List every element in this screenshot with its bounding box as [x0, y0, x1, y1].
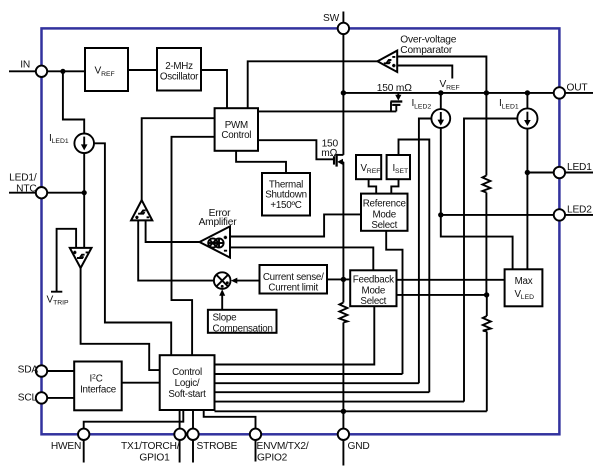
wire ILED2 top to OUT line [440, 93, 442, 109]
svg-text:Mode: Mode [372, 209, 396, 220]
pin SW [338, 12, 349, 35]
wire reference mode select left to error amp plus input [230, 214, 361, 236]
svg-text:Slope: Slope [213, 312, 238, 323]
svg-text:+150ºC: +150ºC [270, 200, 301, 211]
box ISET [387, 155, 410, 179]
box current sense / current limit [260, 265, 328, 294]
wire OUT line [343, 92, 553, 94]
pin IN [36, 66, 47, 77]
box VREF (bandgap) [85, 48, 128, 91]
wire LED2 line [441, 214, 554, 216]
wire LED1/NTC pin line [9, 192, 84, 194]
wire PWM comparator output to PWM control left [142, 118, 215, 200]
wire feedback mode select right to resistor junction [397, 294, 487, 296]
svg-text:150 mΩ: 150 mΩ [377, 83, 412, 94]
pin OUT [554, 87, 593, 98]
transistor 150mohm PMOS (sync rectifier at OUT line) [391, 93, 403, 112]
node ILED2 OUT junction [438, 90, 443, 95]
wire IN to VREF box [9, 70, 85, 72]
wire bus line 3 [215, 382, 419, 384]
wire feedback junction to resistor R2 [486, 295, 488, 316]
wire current sense to adder (arrow) [235, 280, 260, 282]
wire PWM control bottom to thermal shutdown [236, 151, 286, 173]
wire PWM control right to NMOS gate [258, 140, 333, 159]
wire VREF block to reference mode select [369, 179, 377, 193]
wire NMOS source down to GND (upper part) [342, 162, 344, 303]
node LED1/NTC junction [82, 190, 87, 195]
box I2C interface [74, 362, 122, 411]
wire bus line 4 [215, 391, 430, 393]
svg-text:IN: IN [20, 59, 30, 70]
op-amp over-voltage comparator [378, 51, 398, 72]
current source ILED1 (left) [74, 134, 94, 154]
wire error amp minus input to feedback mode select top [230, 247, 373, 270]
svg-text:mΩ: mΩ [321, 148, 337, 159]
resistor R2 (lower feedback divider) [483, 316, 491, 332]
svg-text:Over-voltage: Over-voltage [400, 34, 456, 45]
svg-text:Control: Control [172, 367, 202, 378]
pin ENVM/TX2/GPIO2 [250, 429, 261, 462]
svg-text:Interface: Interface [80, 385, 117, 396]
wire SDA to I2C interface [47, 370, 74, 372]
op-amp PWM comparator [131, 200, 152, 220]
wire ISET block to reference mode select [391, 179, 398, 193]
wire bus line 5 [215, 401, 465, 403]
node ILED2 LED2-line junction [438, 212, 443, 217]
wire oscillator to PWM control top [201, 70, 227, 108]
svg-text:Soft-start: Soft-start [168, 389, 206, 400]
svg-text:HWEN: HWEN [51, 441, 81, 452]
svg-text:Logic/: Logic/ [175, 378, 200, 389]
wire bus line 1 to feedback mode select bottom [215, 306, 375, 364]
wire NTC comparator output to control logic left [81, 268, 160, 370]
op-amp error amplifier [200, 226, 231, 257]
wire LED1 line [527, 172, 553, 174]
wire ILED1 source bottom to NTC comparator input [83, 153, 85, 248]
op-amp NTC comparator [70, 248, 92, 268]
svg-text:STROBE: STROBE [197, 441, 238, 452]
wire bus line 2 [215, 373, 403, 375]
svg-text:I2C: I2C [90, 373, 103, 384]
svg-text:Feedback: Feedback [353, 275, 394, 286]
svg-text:Oscillator: Oscillator [160, 71, 199, 82]
resistor R1 (on GND sense line) [339, 303, 347, 323]
wire ILED2 bottom through LED2 node to Max VLED top [441, 128, 513, 269]
node IN junction [60, 69, 65, 74]
box Max VLED [505, 269, 543, 306]
wire slope compensation to adder (arrow) [221, 294, 223, 310]
pin TX1/TORCH/GPIO1 [174, 429, 185, 463]
wire current sense right to feedback mode select left [327, 278, 350, 280]
node comparator OUT-line junction [484, 90, 489, 95]
wire TX1 pin to control logic bottom [179, 410, 181, 429]
svg-text:GPIO2: GPIO2 [257, 453, 288, 464]
wire over-voltage comparator plus input VREF stub [397, 66, 452, 79]
wire VTRIP terminal bar [51, 291, 62, 293]
svg-text:Select: Select [360, 296, 386, 307]
wire bus line 6 [215, 410, 487, 412]
svg-text:SW: SW [323, 13, 340, 24]
svg-text:Max: Max [515, 276, 533, 287]
pin GND [338, 429, 349, 466]
wire I2C interface to control logic [122, 382, 160, 384]
wire over-voltage comparator minus input to OUT line [397, 57, 486, 93]
wire IN junction down to ILED1 source top [63, 71, 84, 133]
wire VTRIP stub to NTC comparator input [57, 229, 77, 292]
node current sense junction [341, 277, 346, 282]
wire R2 down to bus line 6 [486, 332, 488, 412]
svg-text:Control: Control [221, 130, 251, 141]
pin LED2 [554, 209, 593, 220]
wire feedback mode select right to Max VLED left [397, 279, 505, 281]
svg-text:ENVM/TX2/: ENVM/TX2/ [257, 441, 309, 452]
svg-text:Mode: Mode [362, 285, 386, 296]
pin LED1/NTC [36, 187, 47, 198]
current source ILED1 (right area) [517, 108, 537, 128]
svg-text:Select: Select [371, 220, 397, 231]
svg-text:SCL: SCL [18, 392, 38, 403]
pin SDA [36, 365, 47, 376]
box thermal shutdown [262, 173, 310, 216]
pin STROBE [187, 429, 198, 463]
svg-text:Comparator: Comparator [400, 45, 453, 56]
svg-text:Current limit: Current limit [268, 282, 318, 293]
wire ILED2 control down to bus line 3 [419, 119, 432, 384]
wire SCL to I2C interface [47, 397, 74, 399]
wire VREF box to oscillator [128, 69, 157, 71]
wire SW net vertical (SW pin to NMOS drain) [342, 34, 344, 155]
wire ILED1 control down to bus line 5 [464, 119, 517, 402]
svg-text:LED1: LED1 [567, 162, 592, 173]
svg-text:NTC: NTC [16, 183, 36, 194]
svg-text:SDA: SDA [18, 365, 39, 376]
transistor 150mohm NMOS (main switch at SW) [334, 154, 343, 167]
resistor R3 (upper feedback divider) [482, 176, 490, 193]
svg-text:Reference: Reference [363, 199, 407, 210]
wire R3 down to feedback junction [485, 193, 487, 295]
wire ISET top up over to bus line 4 [399, 140, 430, 393]
box VREF (reference select input) [356, 155, 381, 179]
adder / multiplier node [214, 272, 237, 295]
wire adder output to PWM comparator [138, 220, 214, 280]
chip boundary box [42, 28, 560, 434]
svg-text:Compensation: Compensation [213, 323, 273, 334]
node GND bus junction [341, 409, 346, 414]
wire STROBE pin to control logic bottom [192, 410, 194, 429]
wire PWM control left to control logic top [172, 137, 215, 355]
node SW-OUT line junction [341, 90, 346, 95]
pin HWEN [78, 429, 89, 463]
wire PWM control right to PMOS gate [258, 110, 396, 112]
svg-text:LED1/: LED1/ [9, 172, 37, 183]
wire reference mode select bottom to bus line 2 [386, 231, 402, 374]
svg-text:OUT: OUT [567, 82, 588, 93]
svg-text:GPIO1: GPIO1 [139, 453, 170, 464]
pin SCL [36, 392, 47, 403]
box 2-MHz oscillator [157, 48, 201, 91]
box feedback mode select [350, 270, 396, 307]
box PWM control [215, 108, 258, 151]
wire ENVM pin to control logic bottom [204, 410, 256, 429]
box control logic / soft-start [160, 355, 215, 410]
node ILED1 LED1-line junction [525, 170, 530, 175]
wire ILED1 bottom through LED1 node to Max VLED top [526, 129, 528, 270]
node ILED1 OUT junction [525, 90, 530, 95]
wire ILED1 top to OUT line [526, 93, 528, 109]
wire error amp output to PWM comparator [146, 220, 200, 242]
box slope compensation [208, 310, 277, 335]
box reference mode select [361, 194, 408, 231]
current source ILED2 (right area) [431, 109, 450, 128]
wire NMOS source down to GND (lower part) [342, 323, 344, 429]
wire ILED1 source output to control logic top [94, 143, 171, 355]
svg-text:Amplifier: Amplifier [199, 217, 238, 228]
svg-text:LED2: LED2 [567, 204, 592, 215]
wire OUT line down to resistor R3 [485, 93, 487, 176]
node feedback resistor junction [484, 292, 489, 297]
pin LED1 [554, 167, 593, 178]
wire over-voltage comparator output to PWM control top [248, 61, 378, 108]
svg-text:TX1/TORCH/: TX1/TORCH/ [121, 441, 180, 452]
wire HWEN to control logic bottom [84, 410, 184, 429]
svg-text:GND: GND [348, 441, 370, 452]
